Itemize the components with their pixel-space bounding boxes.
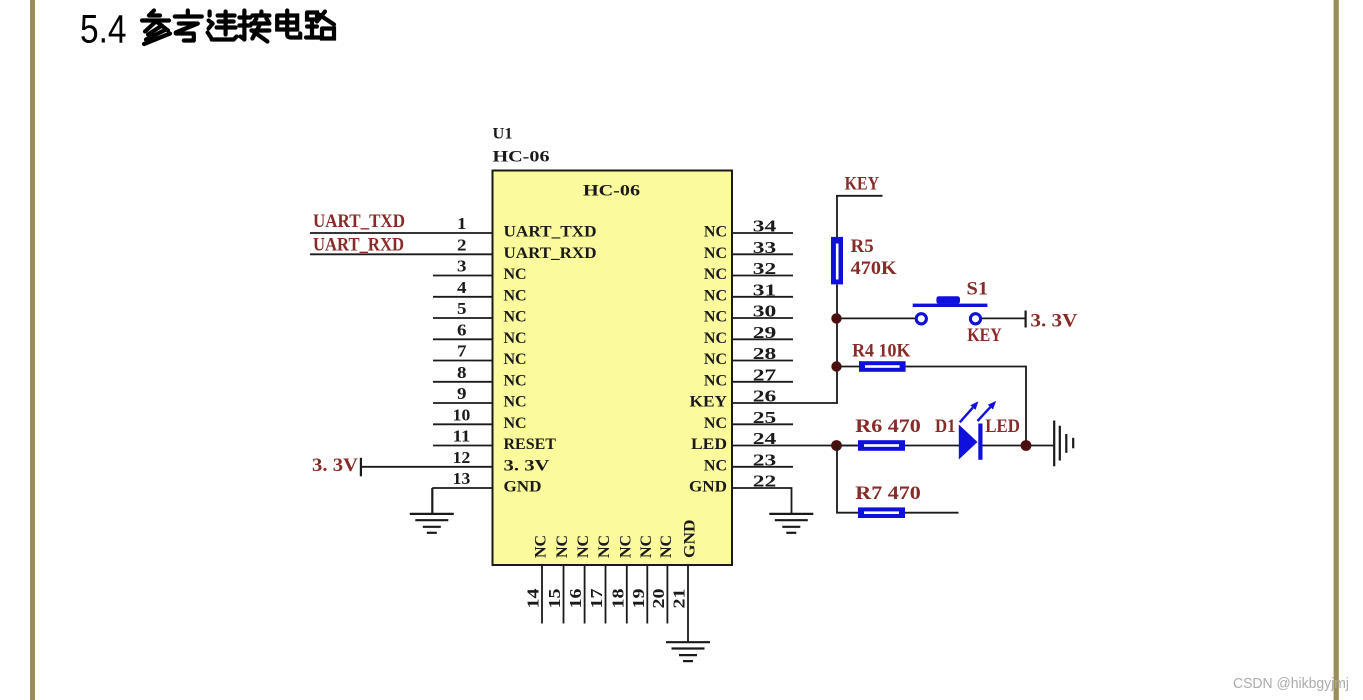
pin 7 wire (433, 360, 493, 362)
pin 19 wire (646, 565, 648, 624)
svg-text:R4 10K: R4 10K (852, 341, 911, 361)
left pin names inside chip (504, 224, 597, 496)
svg-text:11: 11 (453, 427, 471, 446)
title hanzi 连 (208, 12, 237, 40)
svg-text:3. 3V: 3. 3V (312, 456, 359, 476)
title hanzi 考 (175, 11, 202, 41)
svg-text:R6 470: R6 470 (855, 417, 921, 437)
svg-text:HC-06: HC-06 (583, 183, 640, 200)
svg-text:2: 2 (457, 235, 467, 254)
svg-text:8: 8 (457, 363, 467, 382)
resistor R5 (831, 237, 843, 285)
svg-text:NC: NC (617, 535, 634, 558)
pin 31 wire (732, 296, 793, 298)
svg-text:24: 24 (753, 429, 777, 448)
pin 30 wire (732, 317, 793, 319)
pin 23 wire (732, 466, 793, 468)
pin 21 GND wire (687, 565, 689, 642)
svg-text:NC: NC (704, 330, 727, 347)
resistor R4 (859, 361, 906, 372)
ground symbol pin 22 (769, 514, 813, 533)
svg-text:31: 31 (753, 280, 777, 299)
pin 33 wire (732, 253, 793, 255)
svg-text:HC-06: HC-06 (493, 149, 550, 166)
svg-text:LED: LED (691, 436, 727, 453)
svg-text:22: 22 (753, 472, 777, 491)
pin 22 GND wire (732, 488, 792, 514)
svg-text:NC: NC (533, 535, 550, 558)
svg-text:1: 1 (457, 214, 467, 233)
right pin names inside chip (689, 224, 727, 496)
svg-text:30: 30 (753, 302, 777, 321)
svg-text:21: 21 (670, 589, 689, 609)
pin 14 wire (541, 565, 543, 624)
title hanzi 电 (277, 11, 300, 38)
resistor R6 (858, 440, 905, 451)
svg-text:6: 6 (457, 320, 467, 339)
svg-text:NC: NC (596, 535, 613, 558)
pin 10 wire (433, 423, 493, 425)
svg-text:NC: NC (504, 394, 527, 411)
svg-text:GND: GND (504, 479, 542, 496)
svg-text:NC: NC (504, 330, 527, 347)
LED arrows (960, 401, 996, 422)
svg-text:NC: NC (704, 372, 727, 389)
svg-text:R7 470: R7 470 (855, 484, 921, 504)
left page border bar (30, 0, 35, 700)
pin 17 wire (605, 565, 607, 624)
wire junction to R4 (841, 366, 859, 368)
ground symbol pin 13 (410, 488, 454, 533)
svg-text:UART_TXD: UART_TXD (504, 224, 597, 241)
right page border bar (1334, 0, 1339, 700)
pin 12 wire (361, 466, 493, 468)
svg-text:7: 7 (457, 342, 467, 361)
wire junction down to R7 (837, 446, 858, 513)
svg-text:27: 27 (753, 365, 777, 384)
pin 15 wire (563, 565, 565, 624)
pin 13 wire (432, 487, 492, 489)
svg-text:15: 15 (545, 589, 564, 609)
wire S1 to 3.3V (982, 317, 1025, 319)
svg-text:R5: R5 (851, 237, 874, 257)
wire R7 right (905, 512, 959, 514)
svg-text:CSDN @hikbgyjmj: CSDN @hikbgyjmj (1233, 676, 1349, 692)
svg-text:3. 3V: 3. 3V (1030, 312, 1078, 332)
pin 1 wire (310, 232, 493, 234)
svg-text:U1: U1 (493, 126, 513, 143)
svg-text:18: 18 (608, 589, 627, 609)
pin 26 KEY wire to rail (732, 402, 838, 404)
svg-text:NC: NC (704, 351, 727, 368)
svg-text:KEY: KEY (967, 326, 1002, 346)
left pin wires pins 1-13 (310, 233, 493, 488)
svg-text:UART_RXD: UART_RXD (313, 236, 404, 256)
wire R6 to LED (905, 445, 959, 447)
pin 3 wire (433, 275, 493, 277)
svg-text:D1: D1 (935, 417, 956, 437)
svg-text:NC: NC (504, 309, 527, 326)
pin 9 wire (433, 402, 493, 404)
svg-text:NC: NC (658, 535, 675, 558)
svg-text:5: 5 (457, 299, 467, 318)
svg-text:NC: NC (638, 535, 655, 558)
junction at R4 row (831, 361, 841, 371)
svg-text:19: 19 (629, 589, 648, 609)
left pin numbers (453, 214, 471, 488)
wire LED to junction (983, 445, 1023, 447)
KEY net underline wire (836, 195, 883, 197)
pin 24 LED wire (732, 445, 859, 447)
right pin wires pins 34-22 (732, 233, 859, 514)
svg-text:S1: S1 (967, 280, 989, 300)
3.3V right tick (1025, 311, 1027, 328)
svg-text:34: 34 (753, 217, 777, 236)
resistor R7 (858, 507, 905, 518)
svg-text:3: 3 (457, 257, 467, 276)
svg-text:29: 29 (753, 323, 777, 342)
junction at LED row right (1021, 440, 1032, 451)
pin 29 wire (732, 338, 793, 340)
svg-text:3. 3V: 3. 3V (504, 457, 551, 474)
svg-text:33: 33 (753, 238, 777, 257)
pin 32 wire (732, 275, 793, 277)
pin 5 wire (433, 317, 493, 319)
pin 20 wire (666, 565, 668, 624)
svg-text:NC: NC (704, 245, 727, 262)
svg-text:NC: NC (504, 372, 527, 389)
wire junction to ground (1031, 445, 1054, 447)
svg-text:KEY: KEY (845, 175, 880, 195)
svg-text:5.4: 5.4 (80, 8, 127, 52)
svg-text:NC: NC (704, 266, 727, 283)
svg-text:UART_TXD: UART_TXD (313, 212, 405, 232)
bottom pin names rotated NC x7 and GND (533, 520, 699, 559)
wire junction to S1 (841, 317, 915, 319)
title hanzi 路 (306, 12, 334, 39)
svg-text:GND: GND (689, 479, 727, 496)
junction at S1 row (831, 313, 841, 323)
svg-text:23: 23 (753, 450, 777, 469)
svg-text:UART_RXD: UART_RXD (504, 245, 597, 262)
wire junction to R6 (841, 445, 859, 447)
3.3V left tick (360, 458, 362, 477)
junction at LED row left (831, 440, 842, 451)
svg-text:NC: NC (504, 415, 527, 432)
svg-text:16: 16 (566, 589, 585, 609)
ground symbol pin 21 (666, 642, 710, 661)
pin 18 wire (626, 565, 628, 624)
right pin numbers (753, 217, 777, 491)
svg-text:NC: NC (504, 266, 527, 283)
wire R5 to junction rail (836, 284, 838, 403)
pin 6 wire (433, 338, 493, 340)
pin 11 wire (433, 445, 493, 447)
op-chip U1 HC-06 body (493, 171, 733, 566)
pin 4 wire (433, 296, 493, 298)
svg-text:13: 13 (453, 469, 471, 488)
ground symbol rotated right of LED (1054, 421, 1073, 467)
pin 16 wire (584, 565, 586, 624)
wire KEY to R5 (836, 196, 838, 238)
svg-text:12: 12 (453, 448, 471, 467)
svg-text:NC: NC (504, 351, 527, 368)
svg-text:NC: NC (704, 457, 727, 474)
pin 2 wire (310, 253, 493, 255)
pin 27 wire (732, 381, 793, 383)
LED D1 diode (959, 424, 983, 460)
svg-text:32: 32 (753, 259, 777, 278)
svg-text:NC: NC (575, 535, 592, 558)
svg-text:GND: GND (682, 520, 699, 559)
title hanzi 接 (239, 11, 269, 42)
svg-text:NC: NC (704, 309, 727, 326)
title hanzi 参 (142, 11, 170, 45)
svg-text:20: 20 (649, 589, 668, 609)
svg-text:28: 28 (753, 344, 777, 363)
svg-text:NC: NC (504, 287, 527, 304)
svg-text:NC: NC (704, 224, 727, 241)
svg-text:9: 9 (457, 384, 467, 403)
pin 28 wire (732, 360, 793, 362)
svg-text:26: 26 (753, 387, 777, 406)
pin 8 wire (433, 381, 493, 383)
svg-text:470K: 470K (851, 259, 898, 279)
svg-text:NC: NC (704, 415, 727, 432)
svg-text:KEY: KEY (690, 394, 728, 411)
svg-text:4: 4 (457, 278, 467, 297)
svg-text:10: 10 (453, 405, 471, 424)
svg-text:NC: NC (704, 287, 727, 304)
svg-text:25: 25 (753, 408, 777, 427)
svg-text:NC: NC (554, 535, 571, 558)
wire R4 right then down (906, 367, 1026, 446)
svg-text:17: 17 (587, 588, 606, 609)
svg-text:RESET: RESET (504, 436, 557, 453)
svg-text:14: 14 (524, 588, 543, 609)
pin 25 wire (732, 423, 793, 425)
bottom pin wires pins 14-21 (542, 565, 688, 642)
bottom pin numbers 14-21 rotated (524, 588, 689, 609)
switch S1 (913, 296, 988, 324)
svg-text:LED: LED (985, 417, 1020, 437)
pin 34 wire (732, 232, 793, 234)
